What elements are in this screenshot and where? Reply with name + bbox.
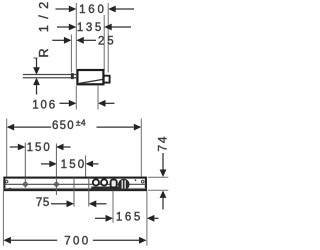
dimension 150 second: tail + arrows + label: [41, 163, 50, 165]
dimension 160: arrow left: [108, 6, 116, 13]
left end screw hole: [5, 180, 8, 183]
svg-text:75: 75: [36, 197, 50, 209]
extension line: 165 left: [112, 191, 114, 223]
extension line: 150b right / 75 right (through bar): [88, 178, 90, 207]
capsule element: [111, 180, 117, 188]
extension line: left edge lower: [2, 191, 4, 246]
dimension 75: tail + right arrow: [51, 203, 67, 205]
extension line: box front edge, lower (106 left): [75, 86, 77, 110]
dimension 135: arrow right: [69, 24, 77, 31]
R 1/2 leader: dash under text: [34, 57, 38, 59]
connection cross 1: [24, 182, 28, 186]
extension line: 106 right: [97, 86, 99, 110]
left end detail blob: [9, 188, 12, 191]
extension line: knob outer edge (160 right): [107, 3, 109, 73]
dimension 700: left arrow + tail: [3, 237, 10, 244]
svg-text:150: 150: [27, 142, 52, 154]
svg-text:150: 150: [61, 159, 87, 171]
dimension 74: up arrow: [160, 190, 167, 198]
thermostat knob (ribbed): [118, 179, 129, 190]
dimension 165: left arrow + tail: [147, 215, 155, 222]
dimension 160: arrow right: [69, 6, 77, 13]
svg-text:R 1/2: R 1/2: [36, 0, 51, 58]
dimension 135: arrow left: [104, 24, 112, 31]
dimension 160: line tails: [56, 8, 70, 10]
extension line: box front (left) edge, upper: [75, 3, 77, 69]
dimension 150 first: tail + arrows + label: [10, 146, 18, 148]
dimension 650: left arrow + tails: [7, 124, 15, 131]
dimension 106: left arrow + tail: [98, 100, 106, 107]
extension line: right edge lower: [146, 191, 148, 246]
svg-text:25: 25: [98, 35, 117, 47]
R 1/2 leader: down arrow to pipe: [36, 59, 38, 70]
knob (side view, wall side): [104, 76, 110, 83]
extension line: body rear edge (135 right): [103, 15, 105, 70]
extension line: 150b right (above bar): [85, 156, 87, 178]
extension line: connection 2 (through bar): [55, 178, 57, 196]
dimension 165: tail + right arrow: [95, 217, 105, 219]
svg-text:74: 74: [156, 135, 170, 152]
extension line: 650 left: [6, 119, 8, 177]
svg-text:700: 700: [64, 236, 90, 248]
supply pipe (double line): [23, 74, 77, 76]
dimension 106: tail + right arrow: [60, 102, 69, 104]
right end screw hole: [141, 180, 144, 183]
svg-text:106: 106: [32, 99, 57, 111]
svg-text:165: 165: [116, 212, 143, 224]
extension line: 75 left (bar centre line): [73, 178, 75, 207]
bar (front view) outline: [4, 178, 146, 191]
pipe end fitting: [71, 73, 74, 79]
svg-text:650: 650: [52, 120, 75, 132]
dimension 74: down arrow: [162, 153, 164, 170]
housing shadow band under buttons: [91, 187, 122, 191]
dimension 74: extension lines from bar: [148, 176, 168, 178]
dimension 25: tail left: [52, 39, 64, 41]
dimension 25: arrow left: [76, 37, 84, 44]
dimension 25: tail right: [84, 39, 96, 41]
connection cross 2: [55, 182, 59, 186]
extension line: connection 1 (above bar): [24, 143, 26, 178]
extension line: connection 1 (through bar): [24, 178, 26, 188]
bar centre line: [4, 183, 146, 185]
svg-text:160: 160: [79, 4, 107, 16]
dimension 25: arrow right: [64, 37, 72, 44]
R 1/2 leader: up arrow to pipe: [33, 78, 40, 86]
profile diagonal (sloped underside): [78, 79, 103, 83]
extension line: 650 right: [140, 119, 142, 177]
svg-text:±4: ±4: [76, 117, 86, 127]
bar lower inner line: [4, 187, 146, 189]
svg-text:135: 135: [77, 22, 104, 34]
dimension 650: right arrow: [134, 124, 142, 131]
dimension 135: line tails: [57, 26, 70, 28]
dimension 75: left arrow + tail: [89, 200, 97, 207]
profile body (side view box): [77, 70, 103, 84]
extension line: connection 2 (above bar): [55, 144, 57, 178]
select button ring 2: [101, 179, 107, 185]
dimension 700: tail + right arrow: [93, 239, 139, 241]
extension line: pipe end (25 left): [70, 35, 72, 73]
select button ring 1: [93, 179, 99, 185]
small dot right of knob: [135, 179, 137, 181]
